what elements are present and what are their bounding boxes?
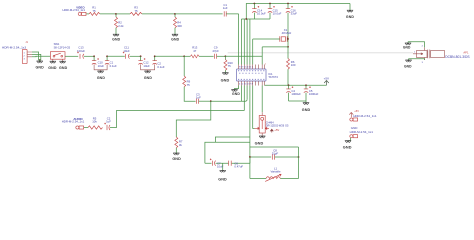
wire R6 to +5V rail <box>287 69 289 85</box>
ground below P5 <box>343 138 352 150</box>
svg-text:GND: GND <box>403 46 411 50</box>
resistor R4 <box>174 17 183 28</box>
svg-text:0.1uF: 0.1uF <box>110 64 117 68</box>
capacitor C9a 0.1uF <box>105 56 117 68</box>
svg-text:HDR-M-2.54_1x1: HDR-M-2.54_1x1 <box>62 120 85 124</box>
node Y <box>287 46 289 48</box>
svg-text:Variable: Variable <box>270 170 280 174</box>
resistor R2 <box>115 17 125 28</box>
node T1 <box>249 156 251 158</box>
ground cap pair1 <box>97 70 105 80</box>
wire crystal right to node X <box>286 38 289 40</box>
svg-text:9 8 7 6 5 4 3 2 1: 9 8 7 6 5 4 3 2 1 <box>239 67 253 69</box>
svg-text:1uF: 1uF <box>223 6 228 10</box>
svg-text:3: 3 <box>422 62 424 64</box>
switch SW1 <box>50 42 70 59</box>
capacitor C9 <box>212 46 219 59</box>
connector P2 VIDEO header <box>63 6 87 16</box>
resistor R5 <box>88 117 103 130</box>
node B2 <box>305 84 307 86</box>
wire IC top pin2 <box>240 19 242 65</box>
capacitor C2a <box>104 117 111 131</box>
ground at rail right end <box>346 4 354 19</box>
node X <box>287 38 289 40</box>
svg-text:10uF: 10uF <box>98 64 105 68</box>
ground below SW2 <box>255 133 266 146</box>
svg-text:GND: GND <box>221 78 230 82</box>
wire R13 to C9 <box>199 55 214 57</box>
capacitor C15 <box>268 4 282 20</box>
wire cap pair2 bottoms <box>141 64 155 69</box>
node rail C15 <box>269 3 271 5</box>
wire tank mid edge right <box>275 156 299 158</box>
node J1 gnd <box>39 59 41 61</box>
svg-text:10.0uF: 10.0uF <box>273 12 282 16</box>
wire node A6 to rail end <box>225 55 262 57</box>
resistor R13 <box>190 46 199 58</box>
wire node A5 to R13 <box>184 55 190 57</box>
+5V flag right <box>324 76 329 85</box>
svg-text:GND: GND <box>255 142 264 146</box>
wire node D1 down to R7 line <box>176 101 211 137</box>
wire node A4 to node A5 <box>155 55 185 57</box>
wire C13 to node A1 <box>84 55 94 57</box>
node rail C14 <box>254 3 256 5</box>
wire cap pair1 bottoms <box>94 64 107 69</box>
wire node D1 to IC pin13 <box>211 99 247 101</box>
wire C3 to node D1 <box>199 100 211 102</box>
svg-text:J1: J1 <box>25 41 28 44</box>
resistor R1 <box>89 6 100 16</box>
wire node A2 to C11 <box>107 55 125 57</box>
node A1 <box>93 55 95 57</box>
capacitor C7 <box>210 159 224 169</box>
node B1 <box>288 84 290 86</box>
node A6 <box>225 55 227 57</box>
node A2 <box>106 55 108 57</box>
ground below C5 <box>302 101 311 112</box>
capacitor C8 <box>272 148 279 159</box>
wire IC pin16 to SW2 top <box>261 86 263 113</box>
svg-text:GND: GND <box>171 37 179 41</box>
wire IC pin13 drop <box>246 86 248 100</box>
svg-text:GND: GND <box>232 92 240 96</box>
wire R1 to node V1 <box>100 14 116 17</box>
svg-text:GND: GND <box>112 37 120 41</box>
svg-text:1: 1 <box>24 53 26 55</box>
svg-text:1: 1 <box>265 64 267 66</box>
wire IC pin11 drop <box>240 86 242 102</box>
wire C7 C6 line <box>205 157 250 163</box>
capacitor C2b 0.1uF <box>153 56 165 69</box>
wire C1 to IC pin1 drop <box>226 14 238 65</box>
svg-text:HDR-M-2.54_1x1: HDR-M-2.54_1x1 <box>353 114 377 118</box>
ground SW1 pinB <box>59 59 68 70</box>
svg-text:75: 75 <box>228 64 232 68</box>
wire IC pin18 +5V feed <box>265 84 327 86</box>
svg-text:47pF: 47pF <box>212 49 219 53</box>
wire node V1 to R3 <box>116 13 130 15</box>
IC1 top pin stubs <box>239 65 265 70</box>
wire J1 pin3 to SW1 <box>32 55 50 58</box>
connector P3 AUDIO header <box>62 117 85 129</box>
wire IC top pin5 <box>249 19 251 65</box>
node A5 <box>183 55 185 57</box>
svg-text:TA7673: TA7673 <box>268 75 278 79</box>
wire tank top edge <box>250 146 299 148</box>
op-amp IC1 box <box>237 64 279 81</box>
ground below R7 <box>172 148 181 161</box>
connector P5 header <box>350 126 374 138</box>
ground SW1 pinA <box>48 59 57 70</box>
svg-text:47: 47 <box>193 49 197 53</box>
wire IC pin15 to SW2 <box>253 86 255 129</box>
+5V flag header P4 <box>349 109 359 117</box>
capacitor C12 <box>138 56 150 68</box>
svg-text:+5V: +5V <box>274 128 279 132</box>
svg-text:GND: GND <box>172 157 181 161</box>
svg-text:3: 3 <box>24 59 26 61</box>
wire cap bottoms bus <box>241 18 270 20</box>
wire tank right side <box>298 147 300 179</box>
node A4 <box>154 55 156 57</box>
wire C11 to node A3 <box>130 55 141 57</box>
ground below C7 C6 <box>218 163 227 181</box>
capacitor C6 <box>229 161 244 169</box>
wire AP1 shield top <box>408 42 425 48</box>
svg-text:51pF: 51pF <box>272 151 279 155</box>
capacitor C5 <box>304 85 319 101</box>
capacitor C13 <box>77 46 85 59</box>
wire video to R1 <box>86 13 89 15</box>
svg-text:GND: GND <box>36 66 45 70</box>
svg-text:+5V: +5V <box>354 109 359 113</box>
svg-text:0 1 2 3 4 5 6 7 8: 0 1 2 3 4 5 6 7 8 <box>239 83 253 85</box>
capacitor C16 <box>286 4 297 40</box>
wire IC top pin4 <box>246 19 248 65</box>
svg-text:33uF: 33uF <box>291 12 298 16</box>
ground below R4 <box>171 28 179 42</box>
wire C4 C5 bottoms <box>289 100 307 102</box>
connector AP1 RCA jack <box>413 45 470 63</box>
svg-text:0.1uF: 0.1uF <box>157 65 164 69</box>
wire node Y to IC pin9 <box>262 47 288 65</box>
svg-text:GND: GND <box>346 15 354 19</box>
wire AP1 shield bottom <box>409 59 425 60</box>
wire RF output net (light) <box>228 52 413 54</box>
svg-text:DCBN-801-3/DS: DCBN-801-3/DS <box>445 55 470 59</box>
wire IC pin14 to tank <box>249 86 251 179</box>
resistor R10 <box>224 56 233 70</box>
svg-text:+5V: +5V <box>324 76 329 80</box>
wire tank bottom right <box>280 178 298 180</box>
wire R9 to C3 <box>184 87 195 101</box>
capacitor C1 <box>223 3 228 17</box>
resistor R6 <box>287 59 296 70</box>
wire tank feed main <box>205 142 250 163</box>
node V2 <box>174 13 176 15</box>
svg-text:HDR-M-2.54_1x1: HDR-M-2.54_1x1 <box>350 130 374 134</box>
ground AP1 top <box>403 42 411 50</box>
wire node V2 to C1 <box>175 13 223 15</box>
svg-text:GND: GND <box>97 76 105 80</box>
wire J1 pin2 <box>32 54 41 60</box>
svg-text:1: 1 <box>414 52 416 54</box>
ground below R10 <box>221 70 230 82</box>
svg-text:2.2k: 2.2k <box>118 24 124 28</box>
IC1 bottom pin stubs <box>239 81 265 86</box>
wire SW1 to C13 <box>65 55 78 57</box>
svg-text:2: 2 <box>24 56 26 58</box>
node bus <box>245 18 247 20</box>
resistor R9 <box>183 76 191 87</box>
wire audio net to IC <box>110 111 244 128</box>
wire R9 drop from node A5 <box>183 56 185 76</box>
crystal X1 <box>280 28 292 42</box>
svg-text:1uF: 1uF <box>106 120 111 124</box>
connector P4 header <box>350 114 377 121</box>
svg-text:SK-12F14-G5: SK-12F14-G5 <box>54 45 71 49</box>
svg-text:GND: GND <box>404 64 412 68</box>
node A3 <box>140 55 142 57</box>
capacitor C14 <box>252 4 266 20</box>
svg-text:HDR-M-2.54_1x1: HDR-M-2.54_1x1 <box>63 8 86 12</box>
svg-text:10.0uF: 10.0uF <box>257 12 266 16</box>
wire tank mid edge left <box>250 156 271 158</box>
svg-text:100: 100 <box>291 63 296 67</box>
wire tank feed upper <box>215 137 250 142</box>
svg-text:GND: GND <box>218 177 227 181</box>
wire J1 pin1 <box>32 52 39 60</box>
svg-text:GND: GND <box>302 108 311 112</box>
power rail top right <box>246 4 350 20</box>
svg-text:2: 2 <box>422 45 424 47</box>
ground IC pin10 <box>231 86 240 97</box>
svg-text:1000uF: 1000uF <box>291 92 301 96</box>
svg-text:GND: GND <box>343 146 352 150</box>
svg-text:10uF: 10uF <box>143 64 150 68</box>
connector J1 HDR-M-2.54_1x3 <box>2 41 32 64</box>
ground below J1 <box>36 60 45 70</box>
ground cap pair2 <box>144 70 152 80</box>
svg-text:1000uF: 1000uF <box>309 92 319 96</box>
wire node X down <box>287 39 289 47</box>
svg-text:48 MHz: 48 MHz <box>282 31 292 35</box>
node D1 <box>210 100 212 102</box>
ground AP1 bottom <box>404 60 412 68</box>
wire tank bottom left <box>250 178 266 180</box>
svg-text:GND: GND <box>144 76 152 80</box>
svg-text:75: 75 <box>187 83 191 87</box>
wire node Y to R6 <box>287 47 289 59</box>
svg-text:GND: GND <box>59 66 68 70</box>
svg-text:HDR-M-2.54_1x3: HDR-M-2.54_1x3 <box>2 45 26 49</box>
capacitor C10 <box>92 56 104 68</box>
wire audio to R5 <box>84 127 88 129</box>
svg-text:GND: GND <box>48 66 57 70</box>
node V1 <box>115 13 117 15</box>
svg-text:DR-12D02-W26 G5: DR-12D02-W26 G5 <box>266 124 289 128</box>
resistor R3 <box>130 6 142 16</box>
svg-text:0.47uF: 0.47uF <box>234 165 243 169</box>
node rail C16 <box>287 3 289 5</box>
+5V flag SW2 <box>270 128 280 132</box>
node T2 <box>298 156 300 158</box>
capacitor C11 <box>123 46 130 59</box>
svg-text:10k: 10k <box>92 120 97 124</box>
ground below R2 <box>112 28 120 42</box>
wire IC top pin3 <box>243 19 245 65</box>
wire C9 to node A6 <box>217 55 226 57</box>
resistor R7 <box>175 137 183 148</box>
capacitor C4 <box>286 85 301 101</box>
svg-text:300: 300 <box>177 24 182 28</box>
switch SW2 <box>255 112 289 133</box>
wire R3 to node V2 <box>142 14 175 17</box>
capacitor C3 <box>196 92 201 103</box>
wire IC pin12 to audio net <box>243 86 245 111</box>
inductor L1 <box>265 167 281 182</box>
wire crystal left to IC pin6 <box>253 39 280 65</box>
